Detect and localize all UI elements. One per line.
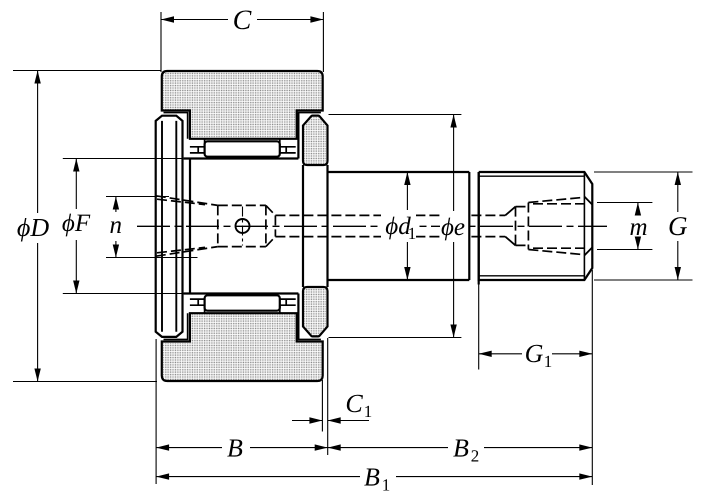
dimension m: [597, 203, 652, 250]
cage left bottom: [190, 299, 205, 313]
svg-text:1: 1: [544, 352, 553, 371]
cage left top: [190, 139, 205, 153]
radial grease hole circle: [236, 207, 250, 246]
dimension n: [106, 197, 198, 258]
svg-text:B: B: [364, 463, 380, 492]
svg-text:2: 2: [471, 447, 480, 466]
dimension phie: [329, 115, 469, 338]
dimension G: [594, 172, 693, 280]
side plate top: [303, 116, 328, 165]
svg-text:ϕD: ϕD: [17, 213, 49, 242]
outer ring bottom half: [162, 313, 323, 381]
dimension G1: [479, 270, 593, 485]
svg-text:1: 1: [364, 402, 373, 421]
dimension B2: [328, 434, 593, 466]
dimension phiF: [62, 159, 190, 294]
needle roller bottom: [205, 295, 280, 310]
grease hole axial (hidden): [275, 215, 505, 236]
cage right top: [280, 139, 296, 153]
hex socket right (hidden lines): [516, 197, 586, 255]
stud flange head: [156, 116, 183, 337]
svg-text:n: n: [110, 212, 123, 239]
svg-text:G: G: [668, 211, 688, 241]
side plate bottom: [303, 287, 328, 336]
dimension C1: [292, 338, 372, 455]
hex socket left (hidden lines): [156, 196, 276, 256]
svg-text:ϕe: ϕe: [441, 214, 465, 241]
threaded section: [479, 172, 593, 280]
svg-text:m: m: [629, 214, 647, 241]
stud raceway section: [184, 113, 299, 340]
grease hole trumpet: [505, 207, 515, 246]
needle roller top: [205, 141, 280, 156]
side plate bore edges: [303, 165, 328, 287]
dimension phid1: [381, 172, 416, 280]
socket chamfer marks at thread face: [584, 197, 592, 256]
svg-text:B: B: [227, 434, 243, 463]
main centerline: [137, 225, 607, 227]
dimension phiD: [13, 71, 161, 382]
thread undercut groove: [478, 172, 480, 285]
stud shaft: [328, 172, 470, 280]
svg-text:B: B: [453, 434, 469, 463]
dimension B: [156, 339, 328, 484]
dimension C: [161, 5, 323, 72]
outer ring top half: [162, 71, 323, 139]
svg-text:1: 1: [408, 224, 417, 243]
svg-text:C: C: [345, 389, 363, 418]
cage right bottom: [280, 299, 296, 313]
svg-text:C: C: [233, 5, 252, 36]
svg-text:1: 1: [382, 476, 391, 495]
dimension B1: [156, 463, 592, 495]
svg-text:ϕF: ϕF: [62, 210, 91, 237]
svg-text:G: G: [525, 339, 544, 368]
